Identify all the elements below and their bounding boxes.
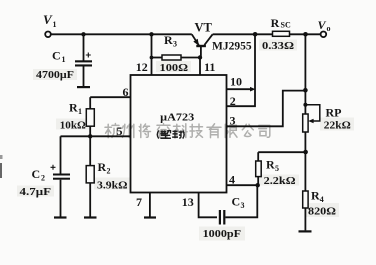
resistor R2: [86, 136, 127, 216]
svg-text:R: R: [271, 16, 280, 30]
svg-text:4.7μF: 4.7μF: [20, 187, 52, 198]
svg-text:10: 10: [230, 75, 242, 89]
svg-text:μA723: μA723: [160, 112, 195, 124]
svg-text:o: o: [327, 24, 331, 33]
svg-text:C: C: [232, 195, 241, 209]
input terminal V1: [43, 12, 57, 37]
svg-text:11: 11: [204, 60, 215, 74]
ground (C1): [77, 86, 90, 88]
node Rsc right junction: [303, 32, 308, 37]
svg-text:R: R: [311, 188, 320, 202]
wire pin 5 line: [61, 135, 131, 137]
svg-text:2: 2: [41, 174, 45, 183]
svg-text:1: 1: [78, 107, 82, 116]
svg-text:10kΩ: 10kΩ: [60, 120, 86, 131]
svg-text:12: 12: [136, 60, 148, 74]
wire pin 7 stub: [149, 193, 151, 217]
svg-text:3: 3: [173, 40, 177, 49]
wire C1 to ground: [83, 67, 85, 87]
IC U1 uA723: [131, 75, 227, 193]
watermark: [105, 124, 270, 138]
resistor R3: [152, 33, 201, 74]
node RP wiper junction: [303, 103, 307, 107]
resistor R4: [303, 152, 336, 230]
resistor R1: [60, 97, 95, 136]
ground (pin 7): [144, 216, 156, 218]
resistor Rsc: [262, 16, 294, 52]
svg-text:V: V: [318, 18, 327, 32]
svg-text:3: 3: [230, 113, 236, 127]
wire C2 drop: [60, 136, 62, 174]
wire Vo node down to RP: [304, 34, 306, 114]
wire pin 12 stub: [151, 34, 153, 75]
svg-text:C: C: [52, 49, 61, 63]
output terminal Vo: [318, 18, 331, 37]
ground (C2): [54, 216, 67, 218]
wire pin 11 stub: [199, 58, 201, 76]
svg-text:C: C: [32, 167, 41, 181]
wire RP to node: [304, 132, 306, 152]
ground (R4): [299, 230, 312, 232]
wire pin 10 line: [227, 88, 254, 90]
svg-text:2: 2: [107, 167, 111, 176]
svg-text:0.33Ω: 0.33Ω: [262, 41, 294, 52]
svg-text:R: R: [69, 101, 78, 115]
svg-text:22kΩ: 22kΩ: [324, 121, 351, 132]
wire C1 drop: [83, 34, 85, 61]
svg-text:820Ω: 820Ω: [308, 207, 336, 218]
wire Rsc to Vo: [290, 33, 321, 35]
svg-text:1: 1: [53, 20, 57, 29]
svg-text:3.9kΩ: 3.9kΩ: [97, 180, 128, 191]
svg-text:2.2kΩ: 2.2kΩ: [264, 176, 296, 187]
node RP/R4 junction: [303, 150, 308, 155]
wire C3 to pin4 node: [225, 185, 257, 217]
node pin12 rail junction: [149, 32, 153, 36]
capacitor C2: [20, 165, 71, 198]
svg-text:13: 13: [182, 195, 194, 209]
edge artifact: [0, 155, 3, 159]
svg-text:R: R: [98, 160, 107, 174]
svg-text:100Ω: 100Ω: [160, 63, 189, 74]
ground (R2): [84, 216, 97, 218]
wire R5 to RP/R4 node: [258, 151, 306, 153]
wire pin 3 elbow: [227, 91, 306, 127]
svg-text:1: 1: [62, 55, 66, 64]
capacitor C1: [36, 49, 92, 82]
svg-text:1000pF: 1000pF: [203, 229, 242, 240]
svg-text:4: 4: [320, 195, 324, 204]
wire top rail collector to Rsc: [213, 33, 273, 35]
wire pin 4 line: [227, 184, 258, 186]
svg-text:MJ2955: MJ2955: [212, 41, 252, 53]
scan halos: [17, 40, 354, 241]
node Rsc left junction: [253, 32, 258, 37]
svg-text:R: R: [266, 158, 275, 172]
svg-text:3: 3: [241, 201, 245, 210]
resistor R5: [256, 152, 296, 187]
node C1 junction: [81, 32, 85, 36]
svg-text:V: V: [43, 12, 53, 27]
wire pin 6 line: [90, 96, 130, 98]
wire pin 2 elbow: [227, 34, 256, 106]
svg-text:5: 5: [275, 164, 279, 173]
wire pin 13 stub: [199, 193, 217, 218]
node pin4/R5/C3 junction: [256, 183, 260, 187]
svg-text:RP: RP: [326, 106, 342, 120]
wire C2 to ground: [60, 180, 62, 217]
transistor VT MJ2955: [192, 21, 252, 58]
node pin3 junction: [303, 88, 308, 93]
IC package label (su feng): [157, 130, 184, 138]
svg-text:7: 7: [136, 195, 142, 209]
node R3 right / base junction: [198, 55, 202, 59]
svg-text:R: R: [164, 33, 173, 47]
capacitor C3: [203, 195, 245, 240]
node R3 left junction: [150, 56, 154, 60]
node pin5/R1/R2 junction: [88, 134, 92, 138]
wire top rail left (V1 to emitter): [51, 33, 192, 35]
svg-text:SC: SC: [281, 20, 291, 29]
potentiometer RP: [303, 105, 351, 132]
svg-text:VT: VT: [195, 21, 213, 35]
arrow pin 10: [250, 87, 256, 92]
svg-text:4700μF: 4700μF: [36, 70, 74, 81]
